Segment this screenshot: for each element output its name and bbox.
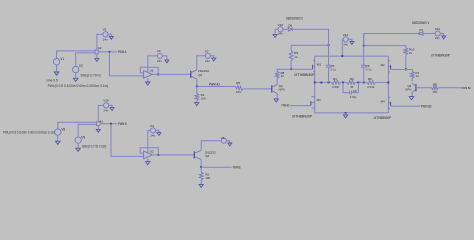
svg-text:SINE(0 0.7 50 0 180): SINE(0 0.7 50 0 180) — [82, 145, 106, 149]
svg-text:V5: V5 — [103, 28, 107, 32]
ground bottom rail — [345, 113, 347, 115]
svg-text:24v: 24v — [278, 31, 283, 35]
voltage source V12 — [343, 37, 348, 42]
voltage source V3 — [157, 53, 162, 58]
transistor Q1 — [190, 71, 192, 78]
svg-text:R3: R3 — [350, 77, 354, 81]
wire V12 to DC rail — [341, 39, 343, 56]
svg-text:V10: V10 — [103, 99, 109, 103]
junction dot R10 bottom — [405, 69, 407, 71]
svg-text:V7: V7 — [205, 49, 209, 53]
resistor R10 — [404, 48, 408, 55]
resistor R6 mid right — [367, 81, 376, 85]
svg-text:NPN: NPN — [405, 88, 411, 92]
wire right leg — [387, 56, 389, 113]
mosfet M4 — [390, 102, 392, 106]
svg-text:DB2S20600 V: DB2S20600 V — [286, 17, 304, 21]
wire V1 to A2 input 1 — [57, 51, 95, 59]
wire Q1 emitter to node PWM A2 — [196, 79, 198, 87]
junction dot Q2 emitter — [200, 166, 202, 168]
wire A1 power pin to V10 — [98, 105, 103, 121]
svg-text:V8: V8 — [61, 127, 65, 131]
gate A1 — [96, 122, 100, 126]
junction dot left bracket — [328, 44, 330, 46]
svg-text:V6: V6 — [221, 136, 225, 140]
resistor R1 — [196, 87, 198, 94]
transistor Q3 — [271, 85, 273, 92]
feedback wire around U1 — [140, 67, 158, 74]
resistor R7 above Q4 — [410, 71, 414, 78]
mosfet M3 — [310, 101, 312, 105]
junction dot U2 output — [157, 154, 159, 156]
wire mid row phase node — [315, 81, 332, 83]
svg-text:V4: V4 — [150, 124, 154, 128]
wire U1 output to Q1 base — [152, 73, 190, 75]
wire U1 power pin to V3 — [148, 56, 157, 72]
wire R9 to M1 gate wire — [290, 61, 292, 69]
svg-text:0.1u: 0.1u — [331, 67, 337, 71]
svg-text:PWM A2: PWM A2 — [282, 104, 290, 108]
voltage source V7 — [205, 53, 210, 58]
wire D6 to left gate-supply corner — [292, 29, 328, 45]
wire node PWM B down to op-amp U2 input — [111, 124, 144, 157]
svg-text:PWM B2: PWM B2 — [233, 166, 241, 170]
voltage source V8 — [55, 129, 61, 135]
wire V13 to diode D6 — [283, 28, 288, 30]
svg-text:V13: V13 — [278, 23, 284, 27]
svg-text:0.1u: 0.1u — [366, 67, 372, 71]
svg-text:PWL(0 0.5 0 8.00m 0.00m 0.0001: PWL(0 0.5 0 8.00m 0.00m 0.0001m 0.1m) — [3, 130, 55, 134]
svg-text:SINE(0 0.7 50 0): SINE(0 0.7 50 0) — [81, 73, 101, 77]
wire Q1 collector to V7 — [197, 56, 205, 70]
wire PWM A to M3 gate — [290, 105, 311, 107]
wire D7 to right bracket — [364, 33, 419, 35]
svg-text:1k: 1k — [294, 55, 298, 59]
svg-text:IXTH88N30P: IXTH88N30P — [294, 73, 314, 77]
voltage source V5 — [103, 32, 108, 37]
junction dot C9 right — [357, 82, 359, 84]
svg-text:PWM B2: PWM B2 — [462, 86, 471, 90]
ground right of V6 — [226, 141, 229, 143]
svg-text:R5: R5 — [236, 81, 240, 85]
wire node to label PWM B2 — [201, 166, 232, 168]
ground below U2 — [147, 159, 149, 162]
svg-text:170p: 170p — [350, 95, 357, 99]
svg-text:M4: M4 — [381, 100, 385, 104]
capacitor C9 box — [343, 82, 350, 92]
svg-text:IXTH88N30P: IXTH88N30P — [374, 116, 392, 120]
wire M1 gate network — [277, 69, 313, 71]
junction dot mid right leg — [387, 82, 389, 84]
junction dot R9 bottom — [290, 68, 292, 70]
ground below Q3 — [274, 99, 278, 102]
feedback wire around U2 — [140, 148, 158, 155]
ground right of V5 — [108, 34, 111, 36]
wire right bracket to R10 — [364, 46, 406, 48]
wire Q2 collector to V6 — [201, 141, 221, 151]
voltage source V4 — [150, 128, 155, 133]
voltage source V9 — [75, 137, 81, 143]
wire D7 to V11 — [423, 33, 435, 35]
capacitor C5 drop — [328, 29, 330, 65]
svg-text:V9: V9 — [81, 135, 85, 139]
ground below U1 — [147, 78, 149, 82]
junction dot M3 drain stub — [320, 82, 322, 84]
svg-text:150: 150 — [236, 90, 241, 94]
diode D6 — [288, 27, 292, 31]
wire Q4 emitter to ground — [411, 92, 413, 96]
junction dot bottom rail center — [345, 112, 347, 114]
svg-text:vme 0.5: vme 0.5 — [46, 79, 58, 83]
wire node to resistor R5 — [197, 86, 236, 88]
svg-text:10: 10 — [416, 74, 420, 78]
ground right of V11 — [440, 34, 443, 37]
svg-text:R6: R6 — [368, 77, 372, 81]
svg-text:M2: M2 — [381, 63, 385, 67]
wire right bracket vertical — [363, 34, 365, 46]
voltage source V11 — [435, 31, 440, 36]
junction dot V12 rail — [341, 55, 343, 57]
junction dot node PWM B — [110, 123, 112, 125]
voltage source V1 — [53, 59, 59, 65]
svg-text:Q1: Q1 — [198, 73, 202, 77]
svg-text:0.33k: 0.33k — [332, 85, 340, 89]
voltage source V2 — [73, 66, 79, 72]
svg-text:D7: D7 — [419, 28, 423, 32]
resistor R2 — [200, 167, 202, 172]
svg-text:A2: A2 — [98, 46, 102, 50]
ground right of V7 — [210, 56, 213, 58]
wire M2 gate network — [391, 70, 413, 72]
svg-text:V2: V2 — [79, 64, 83, 68]
ground left of V13 — [275, 29, 278, 34]
wire R4 to R3 — [341, 81, 347, 83]
diode D7 — [419, 32, 423, 36]
svg-text:10: 10 — [281, 74, 285, 78]
ground below gate A1 — [97, 126, 99, 130]
ground of V2 — [73, 78, 78, 81]
svg-text:PWM B2: PWM B2 — [421, 104, 432, 108]
wire R10 to M2 gate wire — [405, 55, 407, 70]
junction dot mid left leg — [314, 82, 316, 84]
transistor Q4 — [415, 84, 417, 91]
svg-text:NPN: NPN — [279, 87, 285, 91]
wire R6r to label PWM B2 — [438, 87, 461, 89]
wire U2 power pin to V4 — [148, 130, 151, 152]
junction dot mid C6 — [363, 82, 365, 84]
wire A2 power pin to V5 — [97, 34, 103, 49]
capacitor C6 drop — [363, 34, 365, 66]
wire bottom rail — [315, 112, 389, 114]
wire R6 to right leg — [376, 81, 389, 83]
junction dot Q1 emitter — [196, 86, 198, 88]
ground below Q4 — [409, 97, 413, 100]
svg-text:U1: U1 — [150, 68, 154, 72]
svg-text:24v: 24v — [150, 133, 155, 137]
gate A2 — [95, 50, 99, 54]
svg-text:DB2S20600 V: DB2S20600 V — [412, 21, 430, 25]
svg-text:24v: 24v — [343, 42, 348, 46]
svg-text:Q2: Q2 — [205, 154, 209, 158]
svg-text:24v: 24v — [103, 38, 108, 42]
resistor R8 above Q3 — [275, 71, 279, 78]
wire R3 to R6 mid — [355, 81, 366, 83]
svg-text:24v: 24v — [103, 109, 108, 113]
svg-text:R4: R4 — [333, 77, 337, 81]
wire A2 output, node PWM A — [97, 51, 117, 53]
ground below R2 — [200, 180, 202, 184]
svg-text:PWL(0 0.5 0 8.00m 0.00m 0.0001: PWL(0 0.5 0 8.00m 0.00m 0.0001m 0.1m) — [48, 84, 109, 88]
ground right of V12 — [348, 39, 352, 41]
wire left leg — [314, 56, 316, 113]
svg-text:V1: V1 — [60, 57, 64, 61]
svg-text:M1: M1 — [317, 62, 321, 66]
svg-text:A1: A1 — [99, 120, 103, 124]
junction dot C9 left — [342, 82, 344, 84]
svg-text:R6: R6 — [433, 82, 437, 86]
wire Q4 base to R6r — [416, 87, 432, 89]
svg-text:IXTH88N30P: IXTH88N30P — [292, 115, 312, 119]
svg-text:PWM A: PWM A — [118, 50, 127, 54]
transistor Q2 — [193, 151, 195, 158]
wire DC rail top — [315, 55, 389, 57]
junction dot right bracket — [363, 45, 365, 47]
svg-text:PWM B: PWM B — [118, 122, 127, 126]
svg-text:0.33k: 0.33k — [367, 85, 375, 89]
wire U2 output to Q2 base — [152, 154, 194, 156]
voltage source V10 — [104, 103, 109, 108]
junction dot mid C5 — [328, 82, 330, 84]
svg-text:C9: C9 — [353, 89, 357, 93]
resistor R5 — [235, 85, 243, 90]
svg-text:24v: 24v — [435, 36, 440, 40]
mosfet M1 — [312, 65, 314, 69]
ground of V1 — [54, 72, 59, 75]
wire left bracket to R9 — [291, 45, 328, 51]
svg-text:24v: 24v — [157, 59, 162, 63]
junction dot U1 output — [157, 74, 159, 76]
svg-text:100: 100 — [205, 176, 210, 180]
wire node PWM A down to op-amp U1 input — [109, 52, 143, 76]
svg-text:IXTH88N30P: IXTH88N30P — [431, 54, 450, 58]
svg-text:150: 150 — [432, 90, 437, 94]
wire R5 to Q3 base — [243, 88, 272, 90]
svg-text:D6: D6 — [288, 24, 292, 28]
ground right of V10 — [109, 105, 112, 107]
voltage source V13 — [278, 27, 283, 32]
voltage source V6 — [221, 138, 226, 143]
svg-text:V11: V11 — [435, 27, 440, 31]
op-amp U2 — [144, 151, 153, 159]
wire R7 to Q4 collector — [411, 78, 413, 81]
wire Q2 emitter to node PWM B2 — [200, 160, 202, 168]
svg-text:V3: V3 — [157, 49, 161, 53]
ground below R1 — [196, 101, 198, 103]
ground right of V4 — [156, 130, 159, 132]
junction dot node PWM A — [109, 51, 111, 53]
wire V8 to A1 input 1 — [58, 122, 97, 129]
ground below gate A2 — [96, 54, 98, 59]
wire Q3 emitter to ground — [276, 93, 278, 99]
wire V2 to A2 input 2 — [76, 53, 95, 66]
resistor R3 mid center — [347, 81, 356, 85]
ground of V9 — [76, 148, 81, 151]
ground of V8 — [56, 141, 61, 144]
resistor R4 mid left — [332, 81, 341, 85]
wire M4 gate to label — [391, 105, 421, 107]
resistor R6 right — [432, 86, 439, 90]
svg-text:24v: 24v — [205, 59, 210, 63]
svg-text:M3: M3 — [317, 98, 321, 102]
svg-text:U2: U2 — [150, 149, 154, 153]
resistor R9 — [289, 51, 293, 61]
wire V9 to A1 input 2 — [78, 124, 96, 136]
svg-text:100: 100 — [201, 96, 206, 100]
svg-text:V12: V12 — [343, 33, 349, 37]
op-amp U1 — [144, 71, 153, 79]
wire A1 output, node PWM B — [100, 123, 117, 125]
ground right of V3 — [162, 56, 167, 60]
wire R8 to Q3 collector — [276, 78, 278, 84]
mosfet M2 — [390, 65, 392, 69]
